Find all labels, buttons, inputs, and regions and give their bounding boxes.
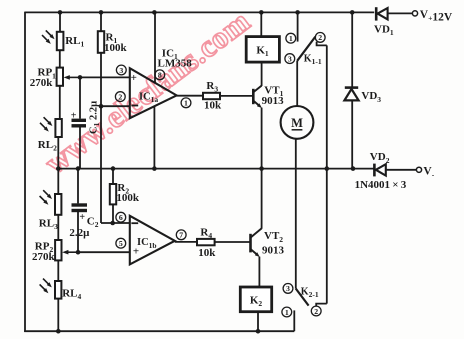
label IC1b inside triangle (137, 237, 157, 250)
wire rail to RL1 (59, 12, 61, 31)
label RP1 (38, 67, 57, 81)
diode VD3 (344, 88, 358, 101)
wire R1 to node A (100, 53, 102, 106)
svg-text:8: 8 (158, 71, 162, 80)
svg-text:9013: 9013 (262, 245, 285, 257)
wire K2 to bottom rail (257, 312, 259, 332)
label IC1a inside triangle (139, 92, 158, 105)
node top rail / IC1 pin8 (152, 10, 157, 15)
capacitor C1 plus mark (71, 111, 77, 122)
wire C2 to wiper2 line (77, 211, 79, 253)
label M (291, 116, 303, 130)
wire K1-1 pole to motor (296, 61, 298, 106)
svg-text:100k: 100k (104, 42, 128, 54)
label VD1 (374, 23, 394, 37)
wire K1-1 contact2 lead (317, 42, 327, 46)
pin 1 of IC1a (181, 98, 191, 108)
wire IC1 pin4 to mid rail (153, 106, 155, 169)
label 270k value of RP2 (32, 251, 56, 263)
contact 3 of K1-1 (285, 54, 295, 64)
node top rail / K1-1 contact 1 (295, 10, 300, 15)
contact 1 of K2-1 (282, 307, 292, 317)
label 270k value of RP1 (30, 77, 54, 89)
svg-text:1N4001 × 3: 1N4001 × 3 (355, 179, 407, 191)
relay coil K1 (246, 37, 279, 63)
relay coil K2 (240, 287, 271, 312)
svg-text:5: 5 (119, 239, 123, 248)
label RL1 (65, 35, 84, 49)
label K2-1 (301, 287, 319, 300)
wire IC1a output to R3 (177, 95, 203, 97)
motor M circle (281, 106, 314, 139)
wire rail to R1 (100, 12, 102, 31)
wire motor to K2-1 pole (crosses mid rail, no join) (295, 139, 297, 289)
capacitor C1 (72, 120, 87, 126)
node RL4 / bottom rail (56, 329, 61, 334)
wire node A down to IC1b inverting line (crosses mid rail, no join) (100, 106, 102, 223)
node wiper1 / C1 (78, 75, 83, 80)
wire RP2 wiper to IC1b noninverting input (77, 251, 130, 253)
label 10k value of R4 (198, 247, 216, 259)
label IC1 (162, 47, 178, 61)
photoresistor RL4 (40, 279, 62, 299)
diode VD1 (376, 7, 387, 20)
wire VD2 to terminal (386, 169, 417, 171)
wire VT1 collector to K1 (261, 62, 263, 86)
diode VD2 (374, 164, 385, 177)
watermark www.elecfans.com (38, 3, 256, 180)
svg-text:1: 1 (285, 308, 289, 317)
label 10k value of R3 (204, 100, 222, 112)
op-amp IC1b triangle (130, 216, 175, 265)
capacitor C2 (72, 205, 88, 211)
label VD2 (370, 151, 390, 165)
minus sign IC1b (131, 222, 138, 224)
svg-text:M: M (291, 116, 303, 130)
wire wiper1 down to C1 (79, 77, 81, 118)
node top rail / K1 (259, 10, 264, 15)
svg-text:10k: 10k (198, 247, 216, 259)
wire VT1 emitter to mid rail (261, 108, 263, 170)
wire RP1 wiper to IC1a noninverting input (79, 76, 130, 78)
label RP2 (35, 240, 54, 254)
resistor R4 (197, 239, 215, 245)
svg-text:3: 3 (286, 284, 290, 293)
wire C1 to mid rail (79, 126, 81, 170)
minus sign IC1a (131, 105, 138, 107)
transistor VT2 base bar (249, 234, 252, 253)
label K2 (250, 294, 263, 308)
wire R3 to VT1 base (220, 95, 252, 97)
contact 1 of K1-1 (286, 33, 296, 43)
resistor R1 (98, 31, 104, 53)
wire VT2 collector to mid rail (261, 169, 263, 229)
switch arm K2-1 (296, 289, 309, 306)
label K1 (256, 45, 269, 59)
wire RL3 to RP2 (57, 215, 59, 240)
label 100k value of R1 (104, 42, 128, 54)
pin 2 of IC1a (115, 92, 125, 102)
wire node A to IC1a inverting input (101, 105, 130, 107)
svg-text:2: 2 (118, 92, 122, 101)
label 2.2u value of C2 (69, 227, 90, 239)
svg-text:270k: 270k (32, 251, 56, 263)
label RL3 (39, 217, 58, 231)
wire mid rail to R2 (112, 169, 114, 184)
node R2 / inverting line junction (110, 221, 115, 226)
wire RP1 to RL2 (59, 86, 61, 119)
label R2 (117, 182, 129, 196)
pin 5 of IC1b (116, 238, 126, 248)
wire RL2 to mid rail (57, 137, 59, 169)
svg-text:3: 3 (288, 54, 292, 63)
pin 7 of IC1b (176, 230, 186, 240)
wiper arrow of RP1 (64, 75, 80, 80)
wire node A horizontal to R2 foot (101, 222, 130, 224)
svg-text:6: 6 (119, 213, 123, 222)
capacitor C2 plus mark (79, 212, 85, 223)
wire mid rail (58, 168, 374, 170)
plus sign IC1a (131, 72, 137, 84)
node K2 / bottom rail (256, 329, 261, 334)
label 1N4001x3 (355, 179, 407, 191)
pin 6 of IC1b (116, 212, 126, 222)
node top rail / RL1 chain (58, 10, 63, 15)
wire R2 to inverting line (112, 204, 114, 223)
label V- (423, 165, 434, 179)
wire VD3 to mid rail (351, 100, 353, 169)
svg-text:1: 1 (184, 99, 188, 108)
svg-text:2: 2 (314, 307, 318, 316)
label C1 2.2u (rotated) (89, 101, 102, 134)
transistor VT1 base bar (252, 89, 255, 104)
wire R4 to VT2 base (215, 241, 250, 243)
svg-text:+: + (131, 72, 137, 84)
svg-text:3: 3 (119, 66, 123, 75)
photoresistor RL3 (40, 190, 62, 215)
label R3 (206, 80, 218, 94)
photoresistor RL2 (40, 117, 62, 137)
label LM358 (158, 57, 193, 69)
label 9013 value of VT2 (262, 245, 285, 257)
label R1 (106, 31, 118, 45)
wire mid rail to C2 (77, 169, 79, 204)
plus sign IC1b (133, 245, 139, 257)
wire IC1b output to R4 (175, 241, 197, 243)
potentiometer RP1 (57, 68, 63, 86)
wire bottom rail up to K2-1 contact 1 (293, 310, 295, 331)
terminal V- (416, 167, 421, 172)
label R4 (200, 226, 212, 240)
terminal V+ 12V (412, 11, 417, 16)
svg-text:2: 2 (318, 33, 322, 42)
wire top +12V rail (25, 11, 374, 13)
svg-text:LM358: LM358 (158, 57, 193, 69)
svg-text:7: 7 (179, 231, 183, 240)
contact 3 of K2-1 (283, 284, 293, 294)
wire top rail to K1-1 contact 1 (297, 12, 299, 41)
wire top rail to K1 (260, 12, 262, 36)
contact 2 of K2-1 (311, 306, 321, 316)
op-amp IC1a triangle (130, 68, 177, 118)
node pin4 / mid rail (152, 166, 157, 171)
wire RL1 to RP1 (59, 50, 61, 67)
resistor R2 (110, 184, 116, 204)
transistor VT2 collector (251, 228, 262, 237)
contact 2 of K1-1 (315, 33, 325, 43)
wire contact2 bus down right side (K1-1 to K2-1) (326, 45, 328, 303)
wire left border (24, 12, 26, 332)
label K1-1 (304, 53, 322, 66)
svg-text:100k: 100k (116, 192, 139, 204)
svg-text:9013: 9013 (262, 95, 285, 107)
wire mid rail to RL3 (57, 169, 59, 194)
potentiometer RP2 (55, 240, 61, 260)
label C2 (87, 216, 99, 230)
node top rail / R1 (99, 10, 104, 15)
resistor R3 (203, 93, 220, 99)
wiper arrow of RP2 (62, 250, 78, 255)
node mid rail / C2 (76, 166, 81, 171)
node A junction R1/inverting input (99, 104, 104, 109)
node C2 / wiper2 (76, 250, 81, 255)
wire bottom rail (24, 330, 294, 332)
svg-text:270k: 270k (30, 77, 54, 89)
label VT2 (264, 230, 283, 244)
switch arm K1-1 (297, 37, 315, 61)
label VT1 (264, 84, 283, 98)
pin 8 of IC1a (155, 70, 165, 80)
transistor VT1 emitter with arrow (253, 101, 262, 108)
node VT1 emitter / mid rail / VT2 collector (259, 166, 264, 171)
label VD3 (361, 90, 381, 104)
label RL2 (38, 139, 57, 153)
wire IC1 pin8 to top rail (154, 12, 156, 83)
node contact2 bus / mid rail (325, 166, 330, 171)
node mid rail / R2 (111, 166, 116, 171)
wire VT2 emitter to K2 (258, 257, 260, 287)
svg-text:+: + (79, 212, 85, 223)
wire RP2 to RL4 (57, 260, 59, 281)
transistor VT2 emitter with arrow (251, 249, 260, 257)
label 100k value of R2 (116, 192, 139, 204)
label RL4 (62, 287, 81, 301)
wire K2-1 contact2 lead (316, 304, 327, 306)
node VD3 / mid rail (351, 166, 356, 171)
svg-text:2.2μ: 2.2μ (69, 227, 90, 239)
wire RL4 to bottom rail (57, 299, 59, 332)
wire top rail to VD3 (351, 12, 353, 86)
node top rail / VD3 (350, 10, 355, 15)
label V+12V (420, 9, 453, 24)
svg-text:10k: 10k (204, 100, 222, 112)
pin 3 of IC1a (116, 65, 126, 75)
svg-text:1: 1 (289, 34, 293, 43)
label 9013 value of VT1 (262, 95, 285, 107)
wire VD1 to terminal (388, 12, 413, 14)
photoresistor RL1 (42, 30, 63, 50)
transistor VT1 collector (253, 86, 261, 93)
node mid rail / chain (56, 166, 61, 171)
